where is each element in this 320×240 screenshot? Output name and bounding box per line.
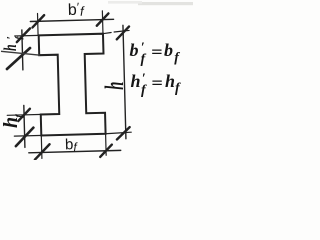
svg-text:h: h [99, 82, 129, 90]
svg-text:h: h [165, 71, 175, 91]
svg-text:h: h [131, 71, 141, 91]
svg-text:b: b [130, 40, 139, 60]
svg-text:b: b [68, 2, 77, 19]
svg-text:=: = [151, 73, 163, 92]
svg-text:h: h [1, 44, 21, 51]
svg-text:=: = [151, 42, 163, 61]
svg-text:b: b [65, 136, 74, 153]
svg-text:b: b [164, 40, 173, 60]
